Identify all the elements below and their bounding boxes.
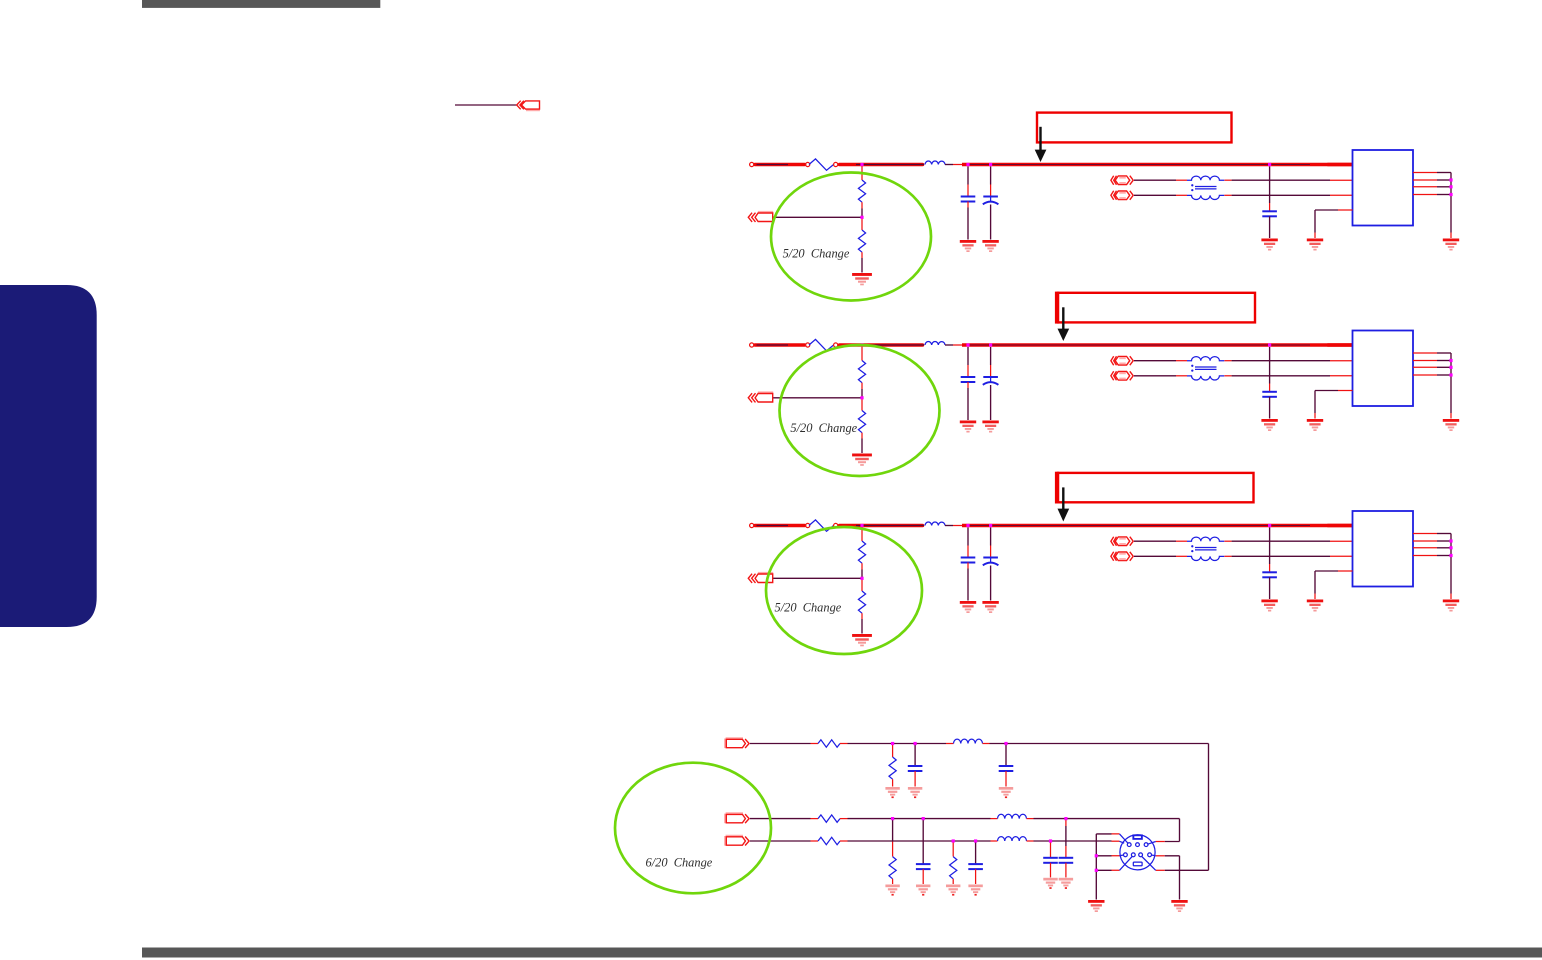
left chapter tab bbox=[0, 285, 97, 627]
change ellipse bottom bbox=[615, 763, 771, 894]
callout box 2 bbox=[1058, 293, 1255, 323]
port chroma out (right tag) bbox=[725, 813, 749, 823]
connector bottom slot bbox=[1133, 862, 1142, 866]
capacitor C12 to ground bbox=[922, 820, 924, 864]
pin 7 bbox=[1148, 853, 1152, 857]
resistor R15 to ground bbox=[952, 842, 954, 857]
callout box 1 bbox=[1037, 113, 1232, 143]
footer bar bbox=[142, 948, 1542, 958]
port luma out (right tag) bbox=[725, 738, 749, 748]
pin 6 bbox=[1139, 853, 1143, 857]
pin 3 bbox=[1144, 843, 1148, 847]
audio jack filter block 2 bbox=[748, 331, 1459, 466]
connector key notch bbox=[1132, 834, 1142, 839]
wire row3 bbox=[750, 840, 811, 842]
capacitor C13 to ground bbox=[975, 842, 977, 864]
capacitor C15 to ground bbox=[1050, 842, 1052, 857]
svg-text:5/20 Change: 5/20 Change bbox=[783, 247, 850, 261]
callout box 3 bbox=[1058, 473, 1254, 502]
arrow 1 bbox=[1039, 127, 1041, 150]
wire to top net port bbox=[455, 104, 517, 106]
inductor L10 bbox=[954, 739, 983, 743]
pin 4 bbox=[1124, 853, 1128, 857]
lead to pin 6 bbox=[1142, 856, 1156, 870]
svg-text:5/20 Change: 5/20 Change bbox=[790, 421, 857, 435]
wire DIN bottom-right to row1 return bbox=[1156, 869, 1165, 871]
junction dots row3 bbox=[952, 839, 955, 842]
ground DIN left bbox=[1088, 900, 1104, 912]
inductor L11 bbox=[998, 814, 1027, 818]
wire row1 bbox=[750, 743, 811, 745]
port composite out (right tag) bbox=[725, 836, 749, 846]
change ellipse 3 bbox=[766, 527, 922, 654]
lead to pin 5 bbox=[1120, 856, 1133, 870]
lead to pin 1 bbox=[1120, 834, 1129, 844]
wire row2 bbox=[750, 818, 811, 820]
svg-text:5/20 Change: 5/20 Change bbox=[775, 601, 842, 615]
pin 2 bbox=[1136, 843, 1140, 847]
resistor R12 bbox=[818, 815, 840, 822]
audio jack filter block 3 bbox=[748, 511, 1459, 646]
top header bar bbox=[142, 0, 380, 8]
lead to pin 4 bbox=[1120, 854, 1124, 857]
change ellipse 1 bbox=[771, 173, 931, 301]
capacitor C10 to ground bbox=[914, 745, 916, 766]
resistor R14 bbox=[818, 837, 840, 844]
resistor R10 bbox=[818, 740, 840, 747]
resistor R13 to ground bbox=[892, 820, 894, 841]
arrow 3 bbox=[1062, 487, 1064, 509]
connector shield circle bbox=[1120, 835, 1155, 870]
lead shield stub bbox=[1120, 841, 1125, 843]
svg-text:6/20 Change: 6/20 Change bbox=[646, 856, 713, 870]
capacitor C11 to ground bbox=[1005, 745, 1007, 766]
lead to pin 3 bbox=[1147, 842, 1155, 845]
audio jack filter block 1 bbox=[748, 150, 1459, 285]
resistor R11 to ground bbox=[892, 745, 894, 758]
port net label top (left arrow tag) bbox=[517, 101, 540, 111]
junction dots row2 bbox=[891, 817, 894, 820]
inductor L12 bbox=[998, 837, 1027, 841]
wire DIN right pin to ground bbox=[1156, 855, 1165, 857]
wire DIN left ground bus bbox=[1096, 834, 1111, 900]
lead to pin 7 bbox=[1151, 854, 1155, 857]
change ellipse 2 bbox=[780, 345, 940, 476]
pin 5 bbox=[1131, 853, 1135, 857]
S-Video DIN connector J10 bbox=[1120, 834, 1156, 870]
junction dots row1 bbox=[891, 742, 894, 745]
pin 1 bbox=[1127, 843, 1131, 847]
ground DIN right bbox=[1171, 900, 1187, 912]
capacitor C14 to ground bbox=[1065, 820, 1067, 826]
arrow 2 bbox=[1062, 307, 1064, 329]
